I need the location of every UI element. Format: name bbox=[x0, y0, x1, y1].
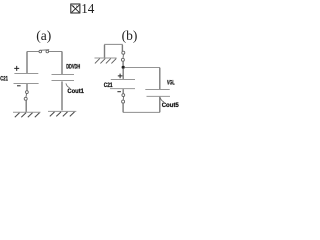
switch SW1 (a top): contact circles and arm bbox=[39, 50, 49, 53]
ground (a right) hatches bbox=[50, 112, 75, 117]
svg-text:(a): (a) bbox=[36, 28, 51, 43]
capacitor Cout1 top plate bbox=[52, 74, 75, 76]
wire: switch to junction bbox=[122, 61, 124, 65]
wire: Cout1 bottom to ground (a right) bbox=[61, 81, 63, 110]
svg-text:C21: C21 bbox=[0, 76, 8, 82]
svg-text:VGL: VGL bbox=[167, 80, 175, 86]
capacitor Cout5 bottom plate bbox=[147, 95, 171, 97]
svg-text:Cout5: Cout5 bbox=[162, 103, 180, 109]
plus sign (a) bbox=[14, 66, 19, 71]
wire: (b) top wire with corner bends bbox=[104, 43, 123, 45]
wire: switch to ground (a left) bbox=[25, 100, 27, 112]
wire: junction right to VGL branch, down to Cout5 bbox=[125, 67, 161, 69]
capacitor C21 (b) top plate bbox=[111, 79, 135, 81]
switch SW2 (a bottom): contacts and arm bbox=[24, 91, 28, 101]
switch SW4 (b bottom): contacts and arm bbox=[122, 94, 125, 103]
svg-text:Cout1: Cout1 bbox=[67, 89, 84, 95]
capacitor C21 (b) bottom plate bbox=[110, 88, 135, 90]
node: junction dot bbox=[122, 66, 125, 69]
switch SW3 (b top): contacts and arm bbox=[121, 51, 124, 61]
ground (a left) hatches bbox=[15, 113, 40, 118]
wire: switch to bottom rail, right to Cout5 bottom bbox=[123, 111, 160, 113]
svg-text:14: 14 bbox=[81, 1, 95, 16]
leader line to Cout5 label bbox=[160, 98, 164, 102]
capacitor Cout5 top plate bbox=[145, 89, 169, 91]
capacitor Cout1 bottom plate bbox=[52, 80, 75, 82]
plus sign (b) bbox=[118, 74, 123, 79]
ground (a left) bar bbox=[13, 111, 41, 113]
minus sign (a) bbox=[17, 85, 21, 87]
wire: C21 bottom to switch bbox=[26, 84, 28, 91]
wire: C21 (b) bottom to switch bbox=[122, 89, 124, 94]
leader line to Cout1 label bbox=[66, 83, 70, 87]
wire: (a) top wire with corner bends bbox=[27, 51, 63, 53]
svg-text:(b): (b) bbox=[122, 28, 138, 43]
capacitor C21 (a) top plate bbox=[14, 73, 38, 75]
ground (b) bar bbox=[95, 57, 117, 59]
wire: junction down to C21 (b) bbox=[122, 69, 124, 79]
ground (a right) bar bbox=[48, 110, 76, 112]
svg-text:DDVDH: DDVDH bbox=[66, 64, 80, 70]
ground (b) hatches bbox=[95, 59, 116, 64]
minus sign (b) bbox=[117, 91, 121, 93]
capacitor C21 (a) bottom plate bbox=[14, 83, 39, 85]
title 図14 : kanji drawn as vector strokes bbox=[71, 4, 80, 13]
svg-text:C21: C21 bbox=[104, 83, 113, 89]
